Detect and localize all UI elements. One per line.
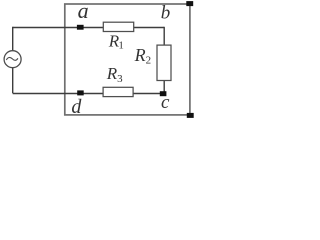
svg-text:a: a <box>78 0 89 23</box>
svg-text:R2: R2 <box>134 45 152 66</box>
svg-text:R1: R1 <box>108 32 124 52</box>
svg-text:d: d <box>71 96 82 118</box>
svg-text:c: c <box>161 92 170 113</box>
svg-text:b: b <box>161 2 171 23</box>
svg-text:R3: R3 <box>106 64 123 85</box>
